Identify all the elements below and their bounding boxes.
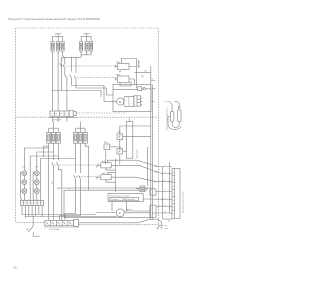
button SB1 — [104, 142, 110, 150]
wire bracket under QF2 — [62, 51, 91, 91]
contact KM2 aux — [60, 175, 81, 220]
svg-text:7: 7 — [164, 198, 165, 200]
svg-text:Е: Е — [119, 211, 121, 215]
pressure sensor SK2 — [117, 146, 123, 154]
wire XS1 down to lower section — [53, 116, 67, 122]
junction dots — [61, 57, 105, 86]
pressure gauge P — [96, 209, 150, 217]
lamp HL5 — [22, 189, 27, 194]
svg-text:шина: шина — [164, 228, 168, 230]
plug/socket XP1 XS1 — [49, 110, 127, 121]
svg-text:ХТ1 СУНА: ХТ1 СУНА — [49, 228, 60, 231]
svg-text:~: ~ — [125, 99, 127, 102]
contact KM1 aux — [52, 162, 62, 220]
svg-text:х: х — [136, 109, 137, 111]
circuit breaker QF2 — [80, 34, 93, 53]
breaker SF1 — [47, 122, 61, 144]
mech link KM2 dashed — [77, 77, 118, 79]
lamp group HL1-HL6 — [21, 148, 76, 201]
svg-text:40: 40 — [14, 266, 17, 270]
svg-text:ХР1/ХS1: ХР1/ХS1 — [53, 120, 62, 122]
wire common bus — [58, 187, 151, 189]
mech link dashed — [54, 164, 97, 166]
pressure sensor SK1 — [117, 132, 123, 140]
svg-text:Внешние подключения: Внешние подключения — [183, 192, 185, 213]
wire branches to contactor KM2 — [72, 57, 77, 73]
lamp HL6 — [34, 189, 39, 194]
cable duct loop — [126, 121, 132, 158]
fuse FU1 — [138, 60, 141, 68]
external terminal column XT3 — [168, 169, 180, 223]
motor external connection pictogram — [165, 101, 182, 129]
lamp column wires — [23, 169, 25, 201]
plug XP2 in A1 — [134, 96, 143, 111]
external wiring fan — [115, 160, 172, 219]
breaker SF2 — [74, 122, 88, 144]
svg-text:М: М — [119, 100, 122, 104]
lamp left bus col1 — [21, 172, 22, 201]
lamp HL7 — [136, 147, 148, 192]
lamp HL1 — [22, 171, 27, 176]
contact KM2 main — [70, 75, 76, 89]
controller A1 box — [113, 70, 151, 112]
wire tap to lamps circuit — [53, 89, 62, 91]
connector on trunk upper — [150, 189, 156, 195]
wire three-phase from QF1 down — [53, 51, 65, 111]
relay KV1 — [96, 160, 115, 170]
wires under XT2 — [22, 205, 117, 216]
motor M1 — [104, 98, 124, 105]
contact KM1 main — [60, 58, 65, 76]
wires sensors to trunk — [110, 137, 151, 192]
connector on trunk lower — [150, 205, 156, 218]
svg-text:КV2: КV2 — [102, 173, 105, 175]
svg-text:Резервный: Резервный — [126, 198, 135, 201]
svg-text:Цепь упр.: Цепь упр. — [137, 149, 139, 158]
terminal strip XT2 — [20, 200, 43, 206]
mech link KM1 dashed — [63, 65, 118, 67]
rectifier converter — [124, 97, 134, 107]
svg-text:3: 3 — [164, 180, 165, 182]
wire A1 to trunk stubs — [151, 81, 156, 102]
wires under SF1 — [44, 143, 59, 220]
switch QS ladder — [28, 217, 40, 237]
lamp HL4 — [34, 180, 39, 185]
ground PE — [157, 225, 169, 230]
control unit box — [108, 194, 143, 211]
svg-text:ПЧ: ПЧ — [141, 76, 144, 78]
lamp HL2 — [34, 171, 39, 176]
wires under SF2 — [76, 143, 89, 190]
svg-text:Основной: Основной — [111, 198, 119, 201]
svg-text:КV1: КV1 — [102, 161, 105, 163]
svg-text:SВ1: SВ1 — [104, 142, 108, 144]
lamp left bus col2 — [33, 172, 34, 201]
circuit breaker QF1 — [51, 34, 64, 53]
cable trunk — [151, 66, 153, 219]
svg-text:−: − — [130, 103, 132, 106]
svg-text:дренаж: дренаж — [126, 209, 133, 211]
svg-text:х1: х1 — [152, 79, 154, 81]
svg-text:1: 1 — [164, 165, 165, 167]
indicator lamp in A1 — [138, 87, 142, 91]
wire motor feed — [62, 86, 113, 102]
relay KV2 — [96, 172, 115, 182]
svg-text:11: 11 — [164, 212, 166, 214]
svg-text:5: 5 — [164, 190, 165, 192]
svg-text:Рисунок Б.7 Электрическая схем: Рисунок Б.7 Электрическая схема насосной… — [8, 17, 100, 21]
svg-text:Подключение двигателя: Подключение двигателя — [167, 107, 169, 130]
svg-text:9: 9 — [164, 205, 165, 207]
terminal strip XT1 — [44, 219, 80, 231]
svg-text:SК1: SК1 — [118, 132, 121, 134]
svg-text:SА: SА — [26, 228, 29, 231]
contactor coil KM2 — [115, 74, 135, 86]
cabinet dashed border (upper section) — [16, 28, 159, 225]
mech link dashed — [76, 176, 97, 178]
wire phase to XP strip — [65, 76, 67, 112]
lamp HL3 — [22, 180, 27, 185]
wire XT1 to PE — [78, 219, 161, 225]
contactor coil KM1 — [115, 59, 137, 89]
svg-text:ХТ: ХТ — [168, 221, 171, 223]
big enclosure outline — [64, 190, 151, 217]
svg-text:2: 2 — [164, 172, 165, 174]
